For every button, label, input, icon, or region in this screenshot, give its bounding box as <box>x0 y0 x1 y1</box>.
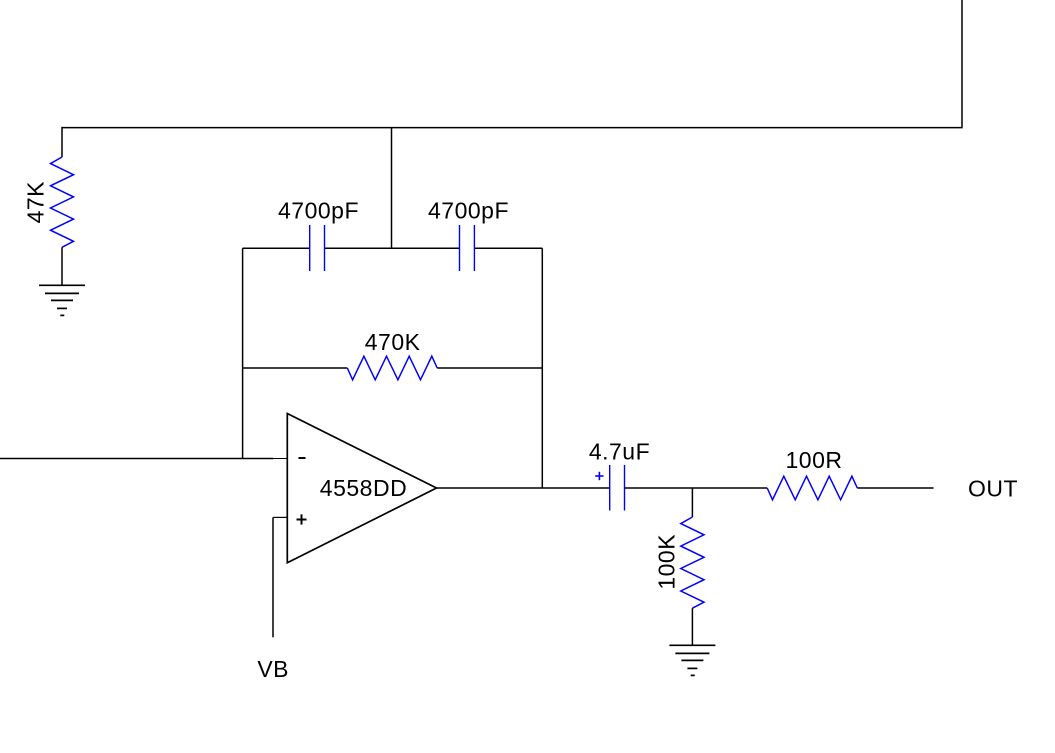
ground (below 100K) <box>669 645 715 675</box>
resistor 470K <box>347 356 437 380</box>
resistor 100R <box>767 476 857 500</box>
svg-text:470K: 470K <box>365 329 421 355</box>
wire 47K bottom lead to ground <box>61 247 63 285</box>
pin stub inverting input <box>273 458 287 460</box>
capacitor 4.7uF polarity plus sign <box>595 472 603 480</box>
capacitor 4.7uF <box>610 465 625 511</box>
wire 470K right lead <box>437 367 542 369</box>
wire right side of feedback box <box>541 248 543 488</box>
capacitor 4700pF (left) <box>310 225 325 271</box>
wire 100R to OUT terminal <box>857 487 933 489</box>
wire inverting input from left edge <box>0 458 273 460</box>
resistor 100K <box>681 517 704 608</box>
wire 470K left lead <box>243 367 348 369</box>
wire left side of feedback box <box>242 248 244 458</box>
resistor 47K <box>51 157 74 247</box>
label 47K (rotated) <box>23 181 49 224</box>
wire top net: right vertical drop, top horizontal run, lead into 47K <box>62 0 962 157</box>
wire capacitor to output node <box>625 487 768 489</box>
wire VB to non-inverting input <box>272 517 274 637</box>
wire 100K bottom lead to ground <box>691 608 693 645</box>
op-amp plus sign <box>297 514 307 524</box>
op-amp minus sign <box>299 457 306 459</box>
svg-text:4700pF: 4700pF <box>428 197 509 223</box>
svg-text:4.7uF: 4.7uF <box>589 439 650 465</box>
svg-text:VB: VB <box>257 656 289 682</box>
ground (below 47K) <box>39 285 85 315</box>
svg-text:4558DD: 4558DD <box>320 475 407 501</box>
wire node down to 100K <box>691 488 693 517</box>
svg-text:100K: 100K <box>653 534 679 590</box>
label 100K (rotated) <box>653 534 679 590</box>
svg-text:OUT: OUT <box>968 475 1018 501</box>
wire capacitor rail segments (top of feedback box) <box>243 247 543 249</box>
svg-text:47K: 47K <box>23 181 49 224</box>
wire op-amp output to coupling capacitor <box>437 487 610 489</box>
pin stub non-inverting input <box>273 516 287 518</box>
capacitor 4700pF (right) <box>460 225 475 271</box>
svg-text:100R: 100R <box>786 447 843 473</box>
svg-text:4700pF: 4700pF <box>278 197 359 223</box>
op-amp U1 4558DD triangle <box>287 414 436 563</box>
wire vertical from top net down to capacitor rail <box>391 128 393 249</box>
